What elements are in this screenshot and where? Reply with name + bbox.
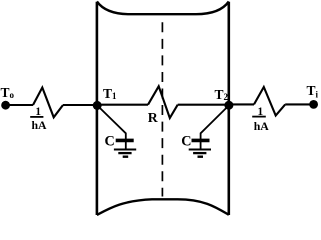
label C right <box>181 134 191 150</box>
svg-text:To: To <box>1 85 15 100</box>
svg-text:hA: hA <box>32 118 48 132</box>
cylinder right wall <box>228 2 231 215</box>
cylinder bottom edge <box>97 199 229 215</box>
svg-text:R: R <box>148 110 159 125</box>
wire resistor R to T2 <box>178 104 229 106</box>
svg-text:T1: T1 <box>103 86 117 101</box>
label R <box>148 110 159 125</box>
label T1 <box>103 86 117 101</box>
capacitor C2 plate <box>192 139 210 143</box>
cylinder top edge <box>97 2 229 15</box>
node To <box>1 101 10 110</box>
capacitor C2 lead wire (from T2) <box>201 105 229 149</box>
ground left <box>114 150 136 157</box>
label Ti <box>307 83 319 99</box>
ground right <box>189 150 211 157</box>
label C left <box>105 134 115 150</box>
resistor R (zigzag) <box>148 86 178 118</box>
svg-text:C: C <box>105 134 115 150</box>
wire left resistor to T1 <box>63 104 97 106</box>
wire To to left resistor <box>6 104 33 106</box>
label To <box>1 85 15 100</box>
label T2 <box>215 87 229 102</box>
svg-text:Ti: Ti <box>307 83 319 99</box>
node Ti <box>309 100 318 109</box>
label 1/hA left (fraction) <box>30 106 47 132</box>
resistor 1/hA right (zigzag) <box>254 87 285 116</box>
svg-text:C: C <box>181 134 191 150</box>
resistor 1/hA left (zigzag) <box>33 88 63 118</box>
wire right resistor to Ti <box>285 103 313 105</box>
node T2 <box>224 101 233 110</box>
capacitor C1 plate <box>116 139 134 143</box>
centerline (dashed cylinder axis) <box>161 22 163 196</box>
wire T2 to right resistor <box>229 103 254 105</box>
label 1/hA right (fraction) <box>252 106 269 133</box>
wire T1 to resistor R <box>97 104 148 106</box>
node T1 <box>93 101 102 110</box>
svg-text:hA: hA <box>254 119 270 133</box>
svg-text:T2: T2 <box>215 87 229 102</box>
capacitor C1 lead wire (from T1) <box>97 105 126 149</box>
cylinder left wall <box>96 2 99 215</box>
